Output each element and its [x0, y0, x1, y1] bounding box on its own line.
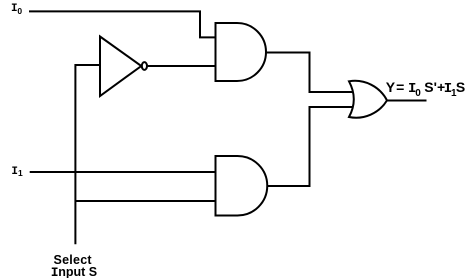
wire S' inverter output to AND1 bottom input	[148, 65, 216, 67]
wire S select to AND2 bottom input	[75, 200, 216, 202]
inverter U1 bubble	[142, 62, 147, 70]
AND gate A2 (bottom)	[216, 156, 268, 216]
svg-text:0: 0	[17, 6, 22, 16]
svg-text:1: 1	[18, 168, 23, 178]
wire AND1 output to OR gate top input	[266, 53, 353, 93]
svg-text:S: S	[456, 79, 465, 95]
svg-text:nput S: nput S	[58, 265, 97, 278]
wire I1 input to AND2 top input	[30, 171, 216, 173]
AND gate A1 (top)	[216, 23, 267, 81]
svg-text:Y=: Y=	[386, 79, 406, 95]
wire select S: inverter input and vertical select line	[75, 65, 101, 244]
svg-text:S'+: S'+	[424, 79, 445, 95]
OR gate O1	[349, 81, 387, 118]
wire AND2 output to OR gate bottom input	[267, 107, 354, 186]
svg-text:0: 0	[415, 88, 421, 99]
wire I0 input to AND1 top input	[29, 11, 216, 37]
inverter U1 triangle	[100, 37, 141, 97]
wire Y output	[387, 100, 427, 102]
